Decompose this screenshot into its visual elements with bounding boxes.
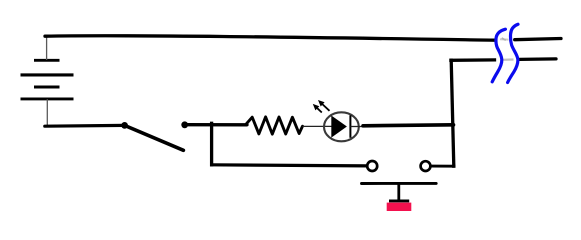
wire top rail faint gap remnant [500,38,509,40]
wire second rail faint gap remnant [503,58,514,60]
wire pushbutton right terminal to right vertical [431,165,454,168]
wire top rail left segment [45,36,495,40]
pushbutton SW2 red cap [387,203,412,211]
pushbutton SW2 stem [397,184,400,201]
pushbutton SW2 actuator bar [362,182,437,185]
pushbutton SW2 right terminal circle [421,161,431,171]
wire bottom rail: battery to switch [45,124,125,128]
resistor R1 [246,117,303,134]
pushbutton SW2 stem foot [389,199,409,202]
wire LED to right vertical [363,125,454,126]
LED D1 emission arrow 2 [318,100,330,111]
wire middle branch vertical [210,123,213,165]
wire resistor to LED thin lead [303,125,333,127]
wire top rail right segment [515,39,561,40]
break squiggle 2 (blue) [508,24,518,82]
wire right vertical (node joining second rail, LED and pushbutton) [451,60,454,166]
break squiggle 1 (blue) [492,29,505,82]
LED D1 anode triangle [331,116,347,138]
wire second rail right segment [451,58,495,62]
wire battery bottom terminal [46,99,48,125]
wire second rail right part [520,57,556,61]
LED D1 internal thin lead [350,126,364,128]
LED D1 cathode bar [349,115,351,138]
wire battery top terminal [46,37,48,61]
switch S1 open blade [125,125,184,150]
LED D1 emission arrow 1 [313,104,322,113]
battery B1 [21,60,74,99]
junction dot: switch pole [121,122,128,129]
wire switch to resistor [186,123,247,126]
wire bottom branch to pushbutton left terminal [212,165,367,166]
pushbutton SW2 left terminal circle [367,161,377,171]
junction dot: switch throw [181,121,188,128]
LED D1 body (circle) [324,112,359,141]
